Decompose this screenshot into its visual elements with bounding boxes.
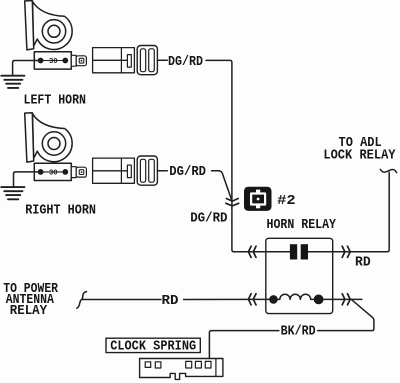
connector chevrons right bottom (relay pin) [342,294,350,305]
relay coil L1 [278,294,314,299]
relay coil terminal node (large) [314,295,324,305]
inline connector C1 (left horn) [93,46,158,75]
wire break symbol (to ADL lock relay) [380,169,396,172]
wire right horn to ground [14,172,41,187]
wire BK/RD to clock spring [209,331,279,362]
clock spring terminal 5 [205,361,211,368]
horn B2 (right horn) [25,113,72,162]
wire coil out through right pin [324,298,362,300]
svg-text:RD: RD [355,254,371,270]
wire contacts to RD / TO ADL LOCK RELAY [308,172,389,251]
connector chevrons right top (relay pin) [342,246,350,257]
wire break symbol (to power antenna relay) [77,292,87,309]
wire power antenna relay to RD [82,299,161,301]
connector chevrons left bottom (relay pin) [248,294,256,305]
clock spring connector body [140,359,223,380]
relay coil terminal node (small) [269,295,278,304]
wire RD to relay coil [184,298,270,300]
svg-text:#2: #2 [277,193,296,209]
wire connector C2 to label [157,170,167,172]
clock spring connector inner wall [215,359,217,376]
ground (left horn) [1,76,24,88]
wire DG/RD down to splice and to horn relay [206,60,291,251]
relay contact plates [290,244,297,259]
label box CLOCK SPRING [106,338,200,352]
svg-text:DG/RD: DG/RD [169,164,206,180]
clock spring terminal 2 [155,362,161,368]
svg-text:CLOCK SPRING: CLOCK SPRING [110,339,196,355]
horn connector (left horn) [34,52,86,69]
svg-text:LOCK RELAY: LOCK RELAY [323,147,396,163]
svg-text:LEFT HORN: LEFT HORN [24,93,87,109]
connector icon #2 [244,187,272,211]
wire left horn to ground [13,61,41,76]
wire diagonal down to BK/RD [318,299,374,330]
svg-text:RIGHT HORN: RIGHT HORN [25,203,96,219]
wire DG/RD diagonal to splice [212,171,232,199]
clock spring terminal 4 [195,361,201,368]
ground (right horn) [1,187,24,199]
svg-text:BK/RD: BK/RD [281,323,316,339]
horn relay box [266,238,333,313]
svg-text:DG/RD: DG/RD [190,211,227,227]
svg-text:HORN RELAY: HORN RELAY [267,217,337,233]
svg-text:RD: RD [162,293,179,309]
svg-text:30: 30 [49,58,58,66]
connector chevrons left top (relay pin) [248,246,256,257]
svg-text:RELAY: RELAY [10,303,48,319]
horn B1 (left horn) [25,1,72,50]
wire connector C1 to label [157,59,167,61]
svg-text:DG/RD: DG/RD [168,54,203,70]
clock spring terminal 3 [186,361,192,368]
inline connector C2 (right horn) [93,156,158,185]
horn connector (right horn) [34,163,86,180]
splice S1 chevrons [226,199,239,206]
clock spring terminal 1 [145,362,151,368]
svg-text:30: 30 [49,170,58,178]
